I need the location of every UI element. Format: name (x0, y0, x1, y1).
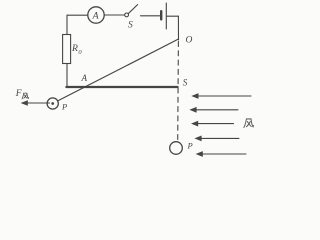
ball P (deflected position) (47, 98, 58, 109)
svg-text:S: S (183, 78, 188, 88)
dashed vertical from O down to resting ball (177, 42, 180, 142)
resistance wire A-S (66, 86, 177, 88)
wire top horizontal to ammeter (67, 14, 88, 16)
svg-text:S: S (128, 21, 133, 31)
svg-text:A: A (92, 10, 100, 21)
wire top-left vertical (upper segment above resistor) (66, 15, 68, 34)
string from O to ball P (58, 39, 179, 101)
svg-text:P: P (61, 102, 67, 112)
battery B1 short plate (160, 11, 162, 19)
battery B1 long plate (165, 3, 167, 29)
wire left vertical (below resistor) (66, 64, 68, 87)
ball P center dot (51, 102, 54, 105)
svg-text:P: P (187, 141, 193, 151)
glyph: wind-character (label of wind arrows) (244, 119, 254, 128)
resistor R0 (63, 35, 71, 64)
svg-text:A: A (81, 73, 88, 83)
glyph: wind-character subscript of F (22, 93, 29, 99)
svg-text:O: O (186, 36, 193, 46)
wind arrow 2 (196, 109, 239, 111)
wind arrow 1 (198, 95, 252, 97)
ammeter A1 (88, 7, 104, 23)
force arrow F-wind on ball (27, 102, 50, 104)
wire battery to right corner (167, 15, 178, 17)
switch S (125, 13, 129, 17)
wire ammeter to switch (104, 14, 124, 16)
svg-text:R: R (71, 43, 78, 54)
wire switch to battery (141, 15, 160, 17)
wind arrow 4 (201, 137, 240, 139)
wind arrow 5 (202, 153, 247, 155)
ball P (rest position, bottom) (170, 142, 183, 155)
svg-text:F: F (15, 89, 22, 99)
wind arrow 3 (197, 123, 234, 125)
wire right vertical down to node O (177, 16, 179, 40)
